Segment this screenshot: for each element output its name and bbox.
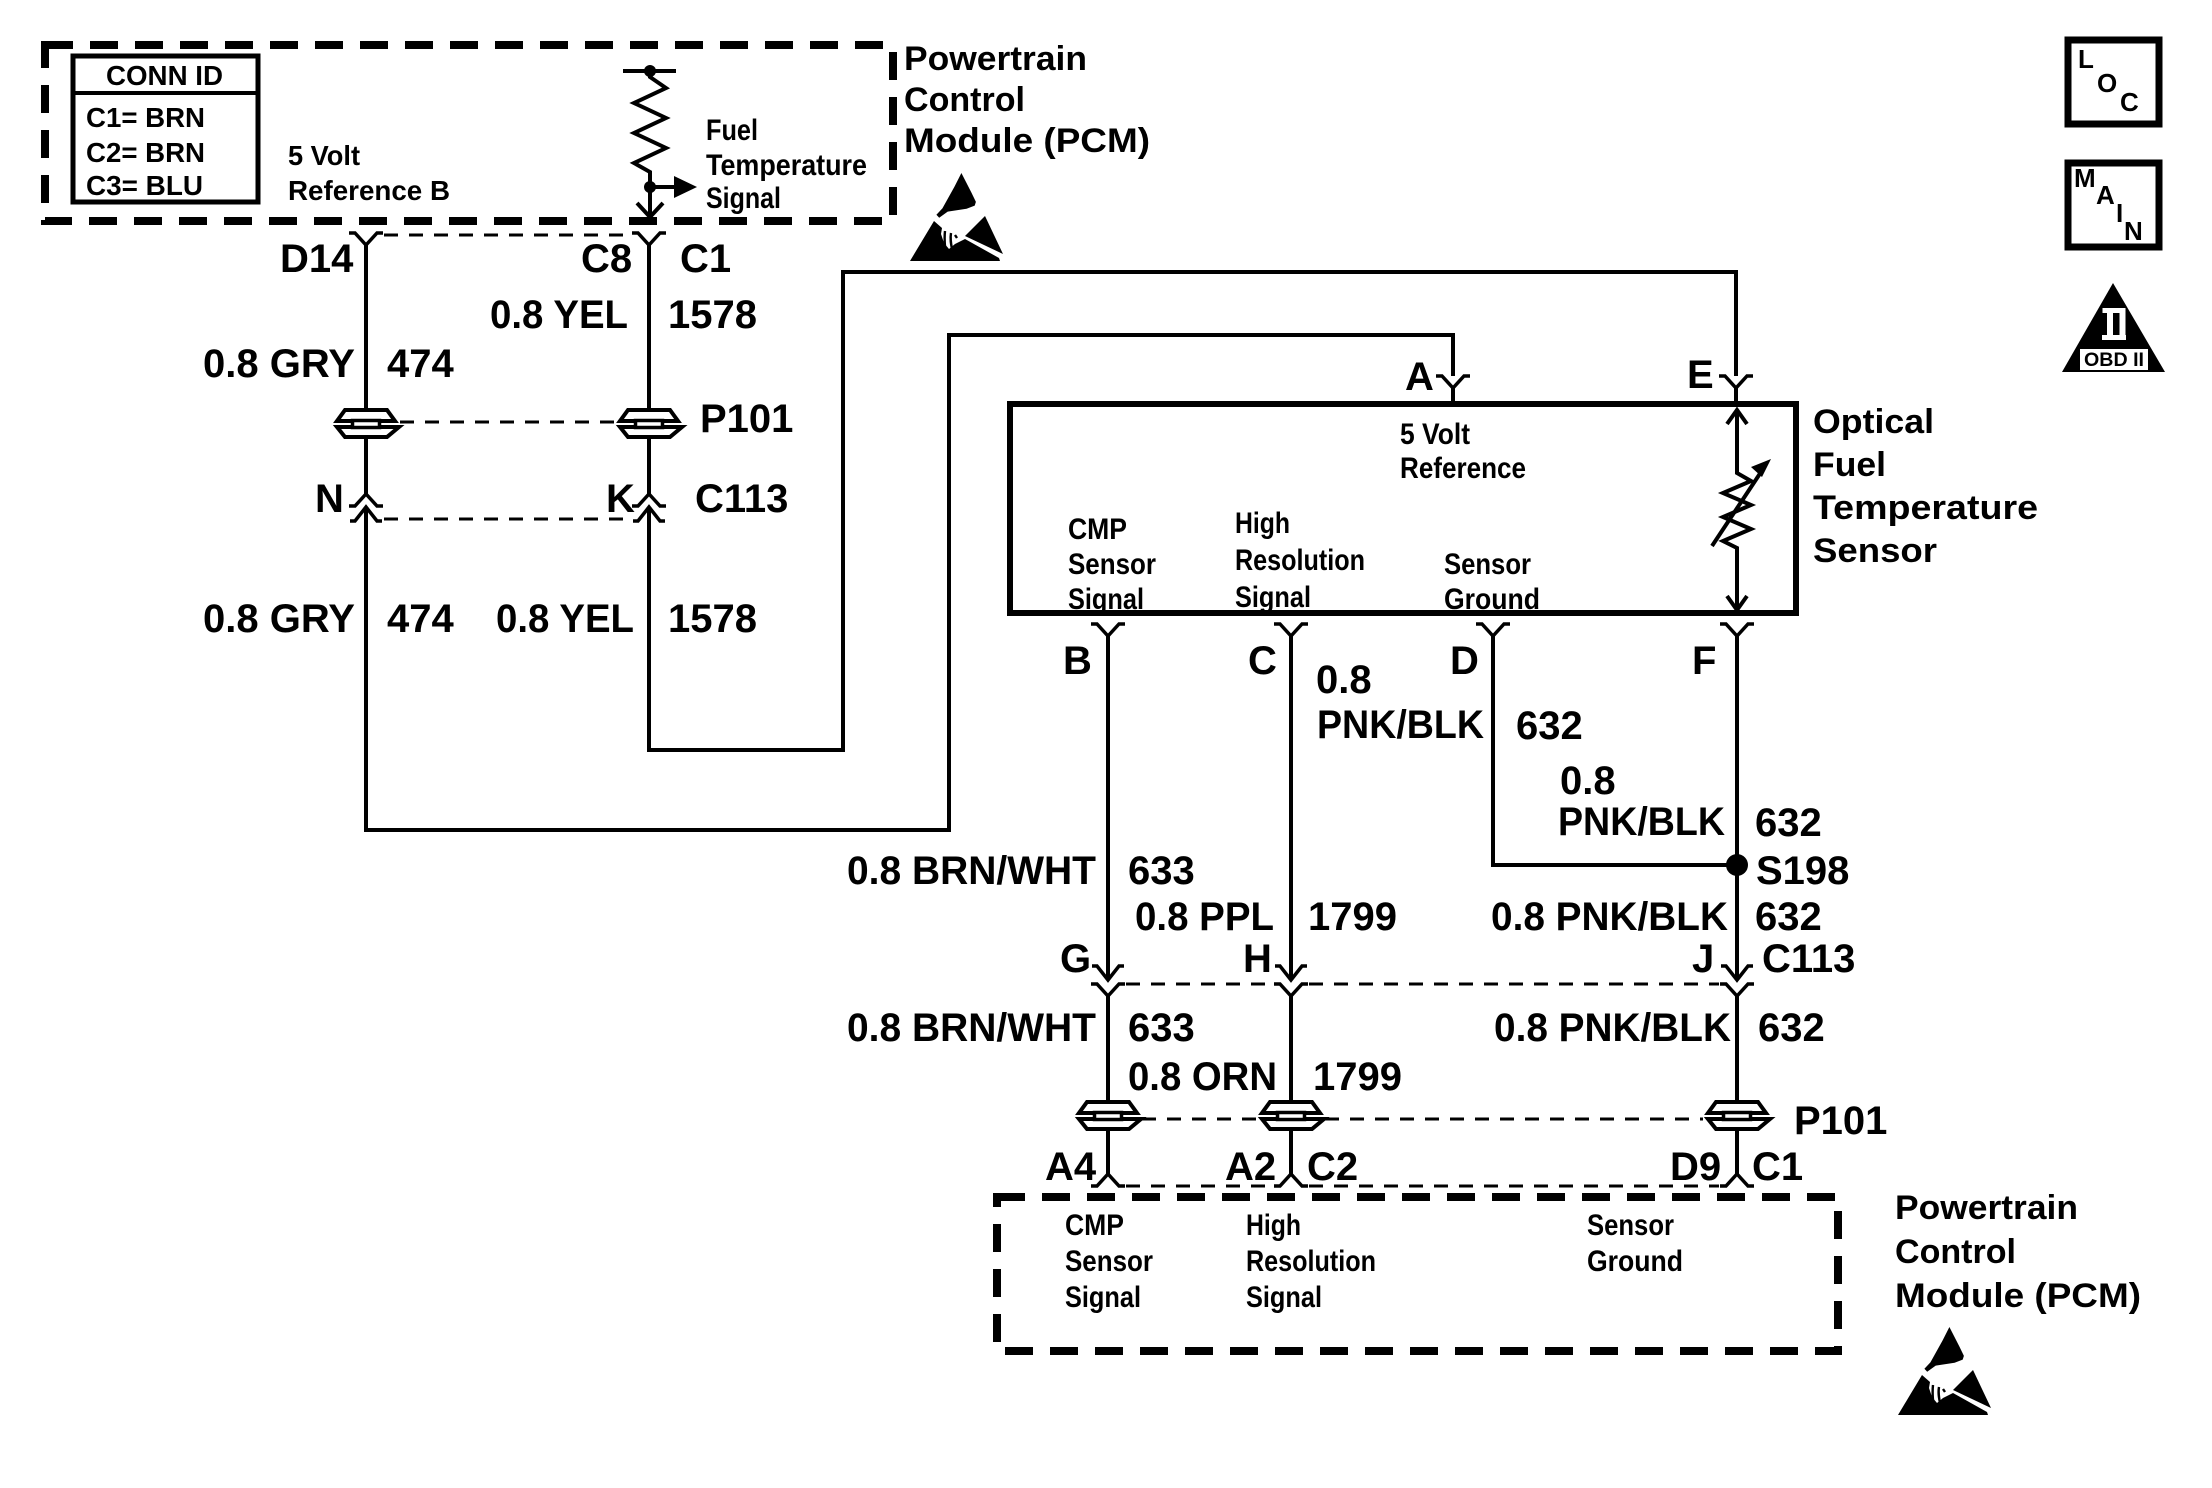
svg-text:C: C xyxy=(2120,87,2139,117)
wire to D9/C1 xyxy=(1735,1130,1739,1174)
svg-text:Sensor: Sensor xyxy=(1444,548,1531,581)
svg-text:S198: S198 xyxy=(1756,849,1849,893)
ESD symbol bottom xyxy=(1898,1327,1991,1415)
C113 dashed line G-H-J xyxy=(1126,983,1273,986)
svg-text:Signal: Signal xyxy=(1065,1281,1141,1314)
svg-text:0.8: 0.8 xyxy=(1560,759,1616,803)
P101 dashed line xyxy=(400,421,615,424)
wire YEL to C113 xyxy=(647,438,651,494)
svg-text:474: 474 xyxy=(387,597,454,641)
node D14 receptacle xyxy=(349,233,383,245)
svg-text:Reference B: Reference B xyxy=(288,175,450,206)
connector P101 bottom left xyxy=(1079,1102,1141,1129)
svg-text:633: 633 xyxy=(1128,849,1195,893)
pin D receptacle xyxy=(1476,624,1510,636)
svg-text:High: High xyxy=(1235,507,1290,540)
svg-text:P101: P101 xyxy=(700,397,793,441)
svg-text:C2= BRN: C2= BRN xyxy=(86,137,205,168)
PCM face dashed line bottom xyxy=(1126,1185,1273,1188)
wire 1578 YEL upper xyxy=(647,245,651,410)
svg-text:Control: Control xyxy=(1895,1233,2016,1271)
svg-text:High: High xyxy=(1246,1209,1301,1242)
wire GRY to C113 xyxy=(364,438,368,494)
svg-text:Signal: Signal xyxy=(1068,583,1144,616)
wire 1578 YEL lower run to pin E xyxy=(649,272,1736,750)
svg-text:Fuel: Fuel xyxy=(706,114,758,147)
svg-text:E: E xyxy=(1687,353,1714,397)
svg-text:Fuel: Fuel xyxy=(1813,446,1886,484)
svg-text:Module (PCM): Module (PCM) xyxy=(904,122,1150,160)
PCM receptacle A2/C2 xyxy=(1274,1174,1308,1186)
ESD symbol top xyxy=(910,173,1003,261)
svg-text:Resolution: Resolution xyxy=(1235,544,1365,577)
svg-text:5 Volt: 5 Volt xyxy=(1400,418,1470,451)
svg-text:Sensor: Sensor xyxy=(1065,1245,1153,1278)
svg-text:Powertrain: Powertrain xyxy=(904,40,1087,78)
svg-text:CONN ID: CONN ID xyxy=(106,60,223,91)
svg-text:0.8 BRN/WHT: 0.8 BRN/WHT xyxy=(847,849,1096,893)
svg-text:1799: 1799 xyxy=(1308,895,1397,939)
svg-text:C1= BRN: C1= BRN xyxy=(86,102,205,133)
svg-text:C8: C8 xyxy=(581,237,632,281)
svg-text:0.8 PPL: 0.8 PPL xyxy=(1135,895,1274,939)
svg-text:0.8 PNK/BLK: 0.8 PNK/BLK xyxy=(1491,895,1728,939)
svg-text:CMP: CMP xyxy=(1068,513,1127,546)
splice S198 xyxy=(1726,854,1748,876)
MAIN box xyxy=(2068,163,2159,247)
svg-text:O: O xyxy=(2097,68,2117,98)
svg-text:C113: C113 xyxy=(695,477,788,521)
svg-text:M: M xyxy=(2074,163,2096,193)
svg-text:J: J xyxy=(1692,937,1714,981)
svg-text:I: I xyxy=(2116,198,2123,228)
svg-text:N: N xyxy=(2124,216,2143,246)
PCM receptacle D9/C1 xyxy=(1720,1174,1754,1186)
svg-text:L: L xyxy=(2078,44,2094,74)
svg-text:Optical: Optical xyxy=(1813,403,1934,441)
wire 633 BRN/WHT xyxy=(1106,636,1110,980)
C113 arrow K xyxy=(633,507,665,521)
svg-text:Signal: Signal xyxy=(706,182,781,215)
svg-text:PNK/BLK: PNK/BLK xyxy=(1317,703,1484,747)
connector P101 bottom mid xyxy=(1262,1102,1324,1129)
PCM receptacle A4 xyxy=(1091,1174,1125,1186)
pin C receptacle xyxy=(1274,624,1308,636)
CONN ID table xyxy=(73,56,258,202)
svg-text:CMP: CMP xyxy=(1065,1209,1124,1242)
node C8/C1 receptacle xyxy=(632,233,666,245)
connector P101 right xyxy=(620,410,682,437)
pin E receptacle xyxy=(1719,376,1753,388)
wire 632 PNK/BLK D branch xyxy=(1493,636,1737,865)
svg-text:Temperature: Temperature xyxy=(706,149,867,182)
PCM module box bottom (dashed) xyxy=(997,1197,1838,1351)
svg-text:C2: C2 xyxy=(1307,1145,1358,1189)
svg-text:632: 632 xyxy=(1516,704,1583,748)
pin F receptacle xyxy=(1720,624,1754,636)
wire to A4 xyxy=(1106,1130,1110,1174)
svg-text:A: A xyxy=(1405,355,1434,399)
svg-text:Control: Control xyxy=(904,81,1025,119)
svg-text:B: B xyxy=(1063,639,1092,683)
resistor (fuel temperature sense) inside PCM xyxy=(623,69,676,73)
svg-text:H: H xyxy=(1243,937,1272,981)
svg-text:C3= BLU: C3= BLU xyxy=(86,170,203,201)
connector P101 left xyxy=(337,410,399,437)
connector dashed line D14-C8 xyxy=(384,234,631,237)
svg-text:C1: C1 xyxy=(680,237,731,281)
svg-text:Module (PCM): Module (PCM) xyxy=(1895,1277,2141,1315)
svg-text:0.8 ORN: 0.8 ORN xyxy=(1128,1055,1277,1099)
svg-text:1799: 1799 xyxy=(1313,1055,1402,1099)
svg-text:5 Volt: 5 Volt xyxy=(288,140,360,171)
svg-text:Ground: Ground xyxy=(1587,1245,1683,1278)
svg-text:C1: C1 xyxy=(1752,1145,1803,1189)
svg-text:A2: A2 xyxy=(1225,1145,1276,1189)
OBD II symbol xyxy=(2062,283,2165,372)
svg-text:Powertrain: Powertrain xyxy=(1895,1189,2078,1227)
svg-text:Signal: Signal xyxy=(1246,1281,1322,1314)
svg-text:A4: A4 xyxy=(1045,1145,1097,1189)
C113 receptacle J xyxy=(1720,984,1754,996)
C113 receptacle N xyxy=(349,494,383,506)
wire to A2/C2 xyxy=(1289,1130,1293,1174)
svg-text:Ground: Ground xyxy=(1444,583,1540,616)
C113 receptacle K xyxy=(632,494,666,506)
svg-text:Sensor: Sensor xyxy=(1587,1209,1674,1242)
Optical Fuel Temperature Sensor box xyxy=(1010,404,1796,613)
svg-text:0.8 BRN/WHT: 0.8 BRN/WHT xyxy=(847,1006,1096,1050)
pin B receptacle xyxy=(1091,624,1125,636)
svg-text:OBD II: OBD II xyxy=(2084,350,2144,371)
svg-text:PNK/BLK: PNK/BLK xyxy=(1558,800,1725,844)
C113 dashed line N-K xyxy=(384,518,631,521)
C113 receptacle G xyxy=(1091,984,1125,996)
C113 arrow N xyxy=(350,507,382,521)
svg-text:632: 632 xyxy=(1758,1006,1825,1050)
wire 474 GRY lower run to pin A xyxy=(366,335,1453,830)
svg-text:0.8 PNK/BLK: 0.8 PNK/BLK xyxy=(1494,1006,1731,1050)
svg-text:1578: 1578 xyxy=(668,597,757,641)
svg-text:Reference: Reference xyxy=(1400,452,1526,485)
connector P101 bottom right xyxy=(1708,1102,1770,1129)
svg-text:C113: C113 xyxy=(1762,937,1855,981)
svg-text:Sensor: Sensor xyxy=(1813,532,1937,570)
svg-text:D9: D9 xyxy=(1670,1145,1721,1189)
PCM module box (dashed) xyxy=(45,45,893,221)
svg-text:G: G xyxy=(1060,937,1091,981)
wire 1799 ORN lower xyxy=(1289,996,1293,1102)
svg-text:N: N xyxy=(315,477,344,521)
pin A receptacle xyxy=(1436,376,1470,388)
svg-text:Sensor: Sensor xyxy=(1068,548,1156,581)
svg-text:D14: D14 xyxy=(280,237,354,281)
wire end arrow into connector face xyxy=(637,203,663,217)
svg-text:Signal: Signal xyxy=(1235,581,1311,614)
wire 1799 PPL xyxy=(1289,636,1293,980)
svg-text:632: 632 xyxy=(1755,895,1822,939)
svg-text:474: 474 xyxy=(387,342,454,386)
svg-text:K: K xyxy=(606,477,635,521)
svg-text:0.8: 0.8 xyxy=(1316,658,1372,702)
svg-text:1578: 1578 xyxy=(668,293,757,337)
svg-text:C: C xyxy=(1248,639,1277,683)
svg-text:633: 633 xyxy=(1128,1006,1195,1050)
svg-text:Temperature: Temperature xyxy=(1813,489,2038,527)
svg-text:0.8 GRY: 0.8 GRY xyxy=(203,342,355,386)
wire 474 GRY upper xyxy=(364,245,368,410)
svg-text:F: F xyxy=(1692,639,1716,683)
svg-text:D: D xyxy=(1450,639,1479,683)
svg-text:0.8 YEL: 0.8 YEL xyxy=(490,293,628,337)
LOC box xyxy=(2068,40,2159,124)
wire 632 PNK/BLK lower xyxy=(1735,996,1739,1102)
svg-text:A: A xyxy=(2096,180,2115,210)
svg-text:632: 632 xyxy=(1755,801,1822,845)
C113 receptacle H xyxy=(1274,984,1308,996)
P101 dashed line bottom xyxy=(1142,1118,1257,1121)
svg-text:P101: P101 xyxy=(1794,1099,1887,1143)
svg-text:0.8 GRY: 0.8 GRY xyxy=(203,597,355,641)
variable resistor (optical fuel temp sensor) xyxy=(1727,410,1747,424)
wire 633 BRN/WHT lower xyxy=(1106,996,1110,1102)
svg-text:0.8 YEL: 0.8 YEL xyxy=(496,597,634,641)
wire 632 PNK/BLK F xyxy=(1735,636,1739,980)
svg-text:Resolution: Resolution xyxy=(1246,1245,1376,1278)
fuel temperature signal arrow xyxy=(650,185,674,189)
